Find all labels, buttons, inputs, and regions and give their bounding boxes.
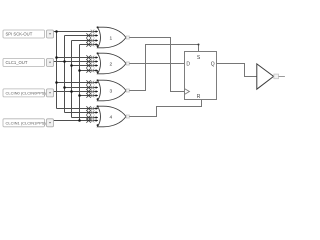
junction bus4 x dd4 (78, 119, 81, 122)
wire gate2 pin3 row (72, 65, 99, 67)
svg-text:CLCIN1 (CLCIN1PPS): CLCIN1 (CLCIN1PPS) (6, 121, 47, 126)
output pin square gate 2 (126, 62, 129, 65)
input pin dots gate1 (95, 31, 97, 46)
wire gate4 pin2 row (65, 112, 99, 114)
svg-text:R: R (197, 94, 201, 100)
gate 3 back corner pin dots (97, 79, 99, 81)
junction bus1 x gate2 pin1 (55, 56, 58, 59)
svg-text:SPI SCK-OUT: SPI SCK-OUT (6, 32, 33, 37)
OR gate 1 (97, 27, 126, 48)
junction bus1 x gate3 pin1 (55, 81, 58, 84)
svg-text:1: 1 (109, 35, 112, 41)
wire gate4 pin3 row (72, 117, 99, 119)
input pin dots gate3 (95, 82, 97, 97)
wire dd3 row into gate3 pin3 (54, 91, 99, 93)
output pin square gate 4 (126, 115, 129, 118)
wire gate4 output to flip-flop R (129, 100, 201, 117)
input select combo box 1: SPI SCK-OUT (3, 30, 54, 38)
wire gate3 pin2 row (65, 87, 99, 89)
OR gate 2 (97, 53, 126, 74)
wire gate3 output to flip-flop S (129, 45, 198, 91)
input select combo box 4: CLCIN1 (CLCIN1PPS) (3, 119, 54, 127)
junction bus3 x gate2 pin3 (70, 64, 73, 67)
input inversion X marks gate1 (87, 34, 91, 47)
junction bus2 x gate3 pin2 (63, 86, 66, 89)
junction bus4 x gate3 pin4 (78, 94, 81, 97)
junction bus1 x dd1 (55, 30, 58, 33)
output buffer triangle (257, 64, 274, 89)
wire gate2 output to flip-flop D (129, 63, 184, 65)
junction bus4 x gate2 pin4 (78, 69, 81, 72)
wire gate2 pin4 row (80, 70, 99, 72)
wire input bus 1 vertical (56, 32, 58, 109)
wire gate1 pin4 row (80, 44, 99, 46)
wire input bus 4 vertical (79, 45, 81, 121)
gate 4 back corner pin dots (97, 105, 99, 107)
wire input bus 3 vertical (71, 41, 73, 118)
wire gate4 pin1 row (57, 108, 99, 110)
input pin dots gate4 (95, 108, 97, 122)
junction bus3 x dd3 (70, 90, 73, 93)
input pin dots gate2 (95, 57, 97, 72)
wire dd4 row into gate4 pin4 (54, 120, 99, 122)
output pin square buffer (274, 74, 279, 79)
svg-text:Q: Q (211, 61, 215, 67)
OR gate 4 (97, 106, 126, 127)
D flip-flop body (185, 52, 217, 100)
junction dot at S feed corner (198, 44, 200, 46)
wire gate3 pin4 row (80, 95, 99, 97)
svg-text:D: D (186, 61, 190, 67)
svg-text:4: 4 (109, 114, 112, 120)
input X marks (unselected, light) gate4 (91, 107, 94, 122)
input X marks (unselected, light) gate1 (91, 30, 94, 46)
wire flip-flop Q to output buffer (217, 64, 257, 77)
output pin square gate 1 (126, 36, 129, 39)
gate 1 back corner pin dots (97, 26, 99, 28)
input select combo box 3: CLCIN0 (CLCIN0PPS) (3, 89, 54, 97)
input select combo box 2: CLC1_OUT (3, 59, 54, 67)
wire gate1 pin3 row (72, 40, 99, 42)
wire dd1 row into gate1 pin1 (54, 31, 99, 33)
wire gate1 output to flip-flop clock (129, 38, 184, 92)
input X marks (unselected, light) gate2 (91, 56, 94, 72)
input inversion X marks gate4 (87, 107, 91, 123)
svg-text:3: 3 (109, 88, 112, 94)
svg-text:2: 2 (109, 61, 112, 67)
gate 2 back corner pin dots (97, 52, 99, 54)
input inversion X marks gate2 (87, 56, 91, 73)
junction bus2 x dd2 (63, 60, 66, 63)
input inversion X marks gate3 (87, 81, 91, 98)
wire gate2 pin1 row (57, 57, 99, 59)
flip-flop clock chevron (185, 89, 190, 95)
wire buffer output (279, 76, 285, 78)
OR gate 3 (97, 80, 126, 101)
svg-text:CLCIN0 (CLCIN0PPS): CLCIN0 (CLCIN0PPS) (6, 91, 47, 96)
wire gate3 pin1 row (57, 82, 99, 84)
input X marks (unselected, light) gate3 (91, 81, 94, 97)
svg-text:CLC1_OUT: CLC1_OUT (6, 60, 28, 65)
output pin square gate 3 (126, 89, 129, 92)
wire input bus 2 vertical (64, 36, 66, 113)
wire dd2 row into gate2 pin2 (54, 61, 99, 63)
wire gate1 pin2 row (65, 35, 99, 37)
